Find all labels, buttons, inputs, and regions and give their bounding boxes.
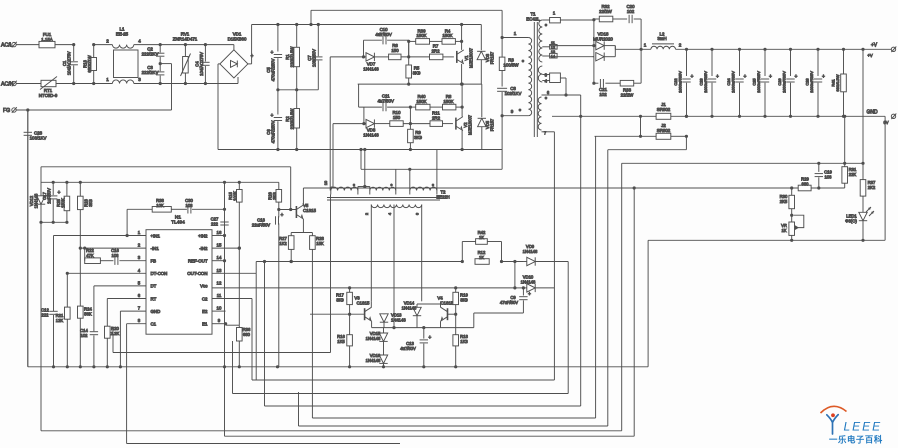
wire V3 base — [310, 313, 365, 315]
svg-text:22/2W: 22/2W — [621, 92, 635, 97]
terminal GND — [843, 115, 846, 118]
diode VD7 — [330, 56, 366, 58]
wire J1-J2 link — [640, 116, 642, 136]
svg-text:1000uF/35V: 1000uF/35V — [782, 71, 787, 93]
svg-text:11: 11 — [217, 293, 222, 298]
svg-text:C1815: C1815 — [303, 208, 316, 213]
svg-text:+: + — [769, 74, 772, 80]
wire gnd-sense line — [41, 166, 291, 168]
svg-text:103/1KV: 103/1KV — [30, 135, 47, 140]
svg-text:104/AC275V: 104/AC275V — [199, 52, 204, 76]
capacitor C28 input Y-cap — [27, 110, 29, 132]
svg-text:+IN1: +IN1 — [151, 233, 161, 238]
svg-text:680K/1W: 680K/1W — [87, 55, 92, 72]
svg-text:+: + — [379, 99, 382, 105]
svg-text:103: 103 — [825, 174, 833, 179]
svg-text:SR802: SR802 — [657, 107, 671, 112]
svg-text:4u7/50V: 4u7/50V — [400, 346, 416, 351]
transistor V5 C1815 — [279, 209, 297, 211]
svg-text:150K: 150K — [442, 33, 452, 38]
resistor R22 — [85, 258, 101, 264]
svg-text:0V: 0V — [883, 120, 888, 125]
wire nest L9 — [225, 435, 635, 437]
capacitor C19 — [818, 163, 820, 172]
thermistor RT1 — [41, 80, 56, 86]
svg-text:13: 13 — [551, 50, 555, 54]
wire pin3 FB — [119, 260, 146, 262]
svg-text:104/AC275V: 104/AC275V — [67, 51, 72, 75]
wire pin12 Vcc line — [212, 287, 515, 289]
svg-text:3: 3 — [138, 77, 141, 82]
svg-text:10K: 10K — [156, 203, 164, 208]
svg-text:+: + — [528, 291, 531, 297]
diode J2 SR802 — [595, 135, 657, 137]
potentiometer VR — [791, 215, 793, 222]
resistor R24 — [79, 248, 81, 306]
svg-text:2K5: 2K5 — [780, 199, 788, 204]
svg-text:1000uF/35V: 1000uF/35V — [703, 71, 708, 93]
wire Vcc-aux link — [514, 262, 516, 288]
varistor RV1 — [184, 45, 186, 57]
wire pin1 +IN1 — [54, 235, 147, 237]
svg-text:+: + — [822, 74, 825, 80]
wire bridge minus — [218, 63, 220, 65]
svg-text:AC/N: AC/N — [1, 82, 14, 88]
svg-text:+V: +V — [871, 43, 878, 49]
svg-text:+: + — [795, 74, 798, 80]
resistor R10 — [390, 121, 403, 127]
svg-text:2K2: 2K2 — [868, 185, 876, 190]
svg-text:C1815: C1815 — [441, 301, 454, 306]
svg-text:+: + — [281, 212, 284, 218]
capacitor C16 — [100, 260, 113, 262]
svg-text:1N4148: 1N4148 — [391, 318, 406, 323]
wire nest L1 — [113, 352, 331, 354]
svg-text:MUR2020: MUR2020 — [593, 36, 613, 41]
wire nest L4 — [233, 393, 569, 395]
wire pin13 line — [256, 261, 462, 263]
svg-text:DT-CON: DT-CON — [151, 271, 168, 276]
resistor R31 — [844, 116, 846, 166]
resistor R40 — [410, 106, 415, 108]
wire gnd-sense drop — [290, 167, 292, 210]
resistor R36 — [226, 324, 240, 326]
diode VD9 — [522, 261, 527, 263]
wire pin7 GND — [120, 310, 146, 312]
resistor R30 — [791, 188, 793, 195]
wire sec-gnd drop — [647, 240, 649, 366]
wire bridge AC bottom — [237, 77, 239, 84]
resistor R6 — [389, 54, 401, 60]
wire pin10 E2 — [212, 310, 226, 312]
capacitor C4 — [204, 45, 206, 62]
svg-text:12: 12 — [217, 280, 222, 285]
svg-text:1.15A: 1.15A — [41, 37, 53, 42]
svg-text:3K6: 3K6 — [88, 199, 93, 207]
svg-text:15: 15 — [217, 243, 222, 248]
svg-text:LEEE: LEEE — [844, 420, 883, 434]
svg-text:MJE13007: MJE13007 — [468, 114, 473, 135]
transistor V4 C1815 — [447, 308, 449, 320]
svg-text:EE22H: EE22H — [436, 194, 449, 199]
wire V1 emitter — [461, 64, 463, 84]
capacitor C13 — [423, 328, 425, 339]
wire N input — [17, 83, 42, 85]
resistor R20 — [105, 326, 111, 338]
svg-text:220K/0.5W: 220K/0.5W — [290, 47, 295, 68]
wire L1 to bridge top — [134, 44, 234, 46]
capacitor C12 — [49, 310, 57, 312]
svg-text:1N4148: 1N4148 — [366, 336, 381, 341]
svg-text:14: 14 — [217, 255, 222, 260]
T2 bottom winding — [371, 205, 421, 208]
wire pin11 C2 — [212, 298, 252, 300]
wire V4 emitter — [440, 321, 442, 327]
resistor R37 — [862, 49, 864, 179]
svg-text:100K: 100K — [233, 191, 238, 201]
terminal AC/L — [12, 42, 16, 46]
svg-text:1K2: 1K2 — [279, 241, 287, 246]
svg-text:+V: +V — [867, 53, 872, 58]
wire pin2 -IN1 — [80, 247, 146, 249]
op-amp U1 TL494 IC body — [146, 230, 212, 335]
wire nest L6 — [312, 417, 595, 419]
svg-text:3K9: 3K9 — [414, 135, 422, 140]
svg-text:+: + — [270, 113, 273, 119]
svg-text:47K: 47K — [86, 253, 94, 258]
svg-text:1N4148: 1N4148 — [363, 66, 379, 71]
wire emitter line — [372, 327, 474, 329]
capacitor C28 — [816, 48, 819, 51]
svg-text:222: 222 — [42, 312, 50, 317]
diode J1 SR802 — [579, 115, 582, 118]
svg-text:Vcc: Vcc — [200, 284, 208, 289]
wire T2 C left up — [409, 169, 411, 190]
svg-text:MJE13007: MJE13007 — [469, 47, 474, 68]
wire T1 pin9 — [502, 115, 528, 117]
svg-text:EC42L: EC42L — [526, 16, 540, 21]
secondary lower winding pins 3 4 — [538, 66, 542, 82]
svg-text:NTC5D-9: NTC5D-9 — [39, 93, 58, 98]
svg-text:3K9: 3K9 — [413, 70, 421, 75]
resistor R15 — [238, 182, 240, 189]
wire T1 top pin to R32 — [542, 19, 549, 21]
svg-text:9: 9 — [511, 109, 514, 114]
wire T2 center tap — [364, 150, 366, 187]
svg-text:1K: 1K — [479, 235, 484, 240]
capacitor C14 — [90, 331, 98, 333]
wire pin16 — [212, 235, 225, 237]
wire VD7 return — [329, 57, 331, 191]
resistor R1 — [296, 25, 298, 48]
svg-text:2: 2 — [679, 43, 682, 48]
resistor R42 — [461, 242, 463, 262]
svg-text:D15XB60: D15XB60 — [228, 37, 247, 42]
svg-text:22/2W: 22/2W — [599, 9, 613, 14]
svg-text:680/0.5W: 680/0.5W — [835, 74, 840, 91]
svg-text:103: 103 — [186, 203, 194, 208]
diode VD13 — [380, 314, 388, 322]
svg-text:22uF/50V: 22uF/50V — [252, 222, 270, 227]
wire nest L5 — [265, 405, 581, 407]
svg-text:1K5: 1K5 — [337, 339, 345, 344]
resistor R28 — [311, 233, 313, 236]
capacitor C24 — [738, 48, 741, 51]
svg-text:100/5W: 100/5W — [503, 62, 519, 67]
wire C9 return — [474, 312, 524, 314]
svg-text:1: 1 — [514, 31, 517, 36]
capacitor C1 — [73, 45, 75, 61]
svg-text:+IN2: +IN2 — [198, 233, 208, 238]
svg-text:SR802: SR802 — [657, 128, 671, 133]
svg-text:*: * — [391, 184, 393, 190]
svg-text:C1815: C1815 — [357, 301, 370, 306]
svg-text:ZNR14D471: ZNR14D471 — [173, 37, 198, 42]
wire vcc-aux rail — [41, 181, 279, 183]
wire VD8 return — [332, 124, 334, 187]
wire V5 emitter — [302, 219, 304, 233]
svg-text:2.2K: 2.2K — [111, 331, 120, 336]
diode VD10 — [515, 287, 527, 289]
svg-text:222/2KV: 222/2KV — [142, 70, 159, 75]
svg-text:2R2: 2R2 — [431, 48, 440, 53]
wire pin15 — [212, 247, 239, 249]
svg-text:+: + — [428, 335, 431, 341]
wire pin9 return — [501, 116, 503, 170]
svg-text:470uF/250V: 470uF/250V — [271, 58, 276, 81]
diode VD14 — [413, 307, 421, 315]
resistor R18 — [455, 314, 457, 335]
svg-text:1: 1 — [106, 77, 109, 82]
capacitor C3 — [159, 65, 161, 71]
svg-text:10: 10 — [217, 306, 222, 311]
resistor R17 — [349, 288, 351, 292]
svg-text:47uF/50V: 47uF/50V — [500, 300, 518, 305]
fuse FU1 — [39, 41, 55, 47]
svg-text:E2: E2 — [202, 309, 208, 314]
svg-text:222/2KV: 222/2KV — [142, 51, 159, 56]
wire nest L7 — [299, 425, 608, 427]
svg-text:FB: FB — [151, 259, 157, 264]
wire nest L3 — [252, 379, 554, 381]
svg-text:680: 680 — [802, 181, 810, 186]
wire nest L10 — [127, 443, 400, 445]
svg-text:102: 102 — [81, 333, 89, 338]
capacitor C7 — [317, 25, 319, 57]
svg-text:1K3: 1K3 — [460, 339, 468, 344]
svg-text:*: * — [432, 184, 434, 190]
capacitor C6 — [277, 90, 279, 115]
svg-text:12K: 12K — [56, 318, 64, 323]
capacitor C26 — [789, 48, 792, 51]
wire FB long line — [303, 187, 844, 189]
wire T1 pin1 — [501, 10, 503, 37]
svg-text:GND: GND — [866, 110, 878, 116]
resistor R11 — [430, 121, 443, 127]
svg-text:2R2: 2R2 — [432, 115, 441, 120]
wire VD18 to L2 — [550, 45, 594, 47]
svg-text:-IN1: -IN1 — [151, 246, 160, 251]
terminal +V — [861, 48, 864, 51]
svg-text:103: 103 — [112, 253, 120, 258]
svg-text:+: + — [716, 74, 719, 80]
svg-text:150K: 150K — [61, 198, 66, 208]
wire V4 base — [448, 313, 456, 315]
svg-text:680: 680 — [243, 332, 251, 337]
svg-text:12: 12 — [551, 46, 555, 50]
svg-text:13: 13 — [217, 268, 222, 273]
svg-text:15K: 15K — [316, 241, 324, 246]
svg-text:FG: FG — [3, 108, 10, 114]
wire V1 collector — [461, 25, 463, 50]
capacitor C18 — [278, 210, 280, 218]
svg-text:REF-OUT: REF-OUT — [188, 259, 208, 264]
svg-text:1N4148: 1N4148 — [521, 279, 536, 284]
wire midpoint line — [358, 83, 482, 85]
svg-text:1N4148: 1N4148 — [523, 249, 538, 254]
svg-text:+: + — [744, 74, 747, 80]
svg-text:2: 2 — [106, 39, 109, 44]
svg-text:3mH: 3mH — [657, 36, 666, 41]
wire left aux bus — [41, 221, 67, 223]
wire mid rail — [278, 89, 318, 91]
wire J2 right return — [685, 136, 687, 149]
wire nest L8 — [41, 430, 622, 432]
wire +V rail — [676, 48, 892, 50]
resistor R25 — [66, 182, 68, 196]
wire pin4 DT-CON — [67, 272, 146, 274]
capacitor C30 — [171, 208, 187, 210]
wire B+ to T1 pin1 — [310, 10, 312, 24]
capacitor C25 — [763, 48, 766, 51]
resistor R2 — [296, 90, 298, 109]
svg-text:EE-25: EE-25 — [116, 31, 129, 36]
svg-text:56K: 56K — [84, 311, 92, 316]
transistor V3 C1815 — [364, 308, 366, 320]
diode VD8 — [333, 123, 366, 125]
svg-text:4: 4 — [138, 39, 141, 44]
wire V5 collector — [302, 188, 304, 205]
resistor R38 — [127, 208, 152, 210]
wire B+ rail — [252, 24, 482, 26]
svg-text:1000uF/35V: 1000uF/35V — [809, 71, 814, 93]
capacitor C5 — [277, 25, 279, 52]
svg-text:1000uF/35V: 1000uF/35V — [756, 71, 761, 93]
capacitor C22 — [685, 48, 688, 51]
svg-text:22K: 22K — [849, 172, 857, 177]
T2 core — [327, 197, 440, 199]
YLEEE logo — [821, 406, 883, 444]
capacitor C17 — [52, 182, 54, 195]
resistor R19 — [455, 288, 457, 292]
svg-text:1uF/50V: 1uF/50V — [47, 188, 52, 204]
wire Vcc feed dots — [348, 286, 351, 289]
wire gnd long line — [622, 162, 863, 164]
svg-text:GND: GND — [151, 309, 161, 314]
diode VD12 — [37, 196, 45, 204]
wire to L1 — [94, 44, 113, 46]
capacitor C23 — [710, 48, 713, 51]
svg-text:DT: DT — [151, 284, 157, 289]
svg-text:1000uF/35V: 1000uF/35V — [731, 71, 736, 93]
resistor R21 — [66, 273, 68, 307]
svg-text:3K9: 3K9 — [336, 297, 344, 302]
resistor R41 — [842, 48, 845, 51]
LED LED1 — [862, 196, 864, 212]
wire C2-C3 mid to FG — [160, 63, 171, 65]
wire L input — [17, 44, 40, 46]
svg-text:470uF/250V: 470uF/250V — [271, 120, 276, 143]
svg-text:Φ3(O): Φ3(O) — [845, 219, 857, 224]
svg-text:102: 102 — [627, 9, 635, 14]
svg-text:150K: 150K — [443, 99, 453, 104]
svg-text:1N4148: 1N4148 — [34, 193, 39, 208]
capacitor C2 — [159, 45, 161, 53]
diode VD15 — [383, 328, 385, 333]
svg-text:1N4148: 1N4148 — [366, 358, 381, 363]
svg-text:150: 150 — [391, 48, 399, 53]
wire pin14 — [212, 260, 225, 262]
svg-text:1N4148: 1N4148 — [363, 132, 379, 137]
svg-text:3K6: 3K6 — [272, 192, 277, 200]
svg-text:3K9: 3K9 — [460, 297, 468, 302]
svg-text:+: + — [379, 32, 382, 38]
resistor R3 — [501, 38, 503, 58]
svg-text:150K: 150K — [416, 99, 426, 104]
wire main bottom rail — [28, 366, 648, 368]
svg-text:C2: C2 — [202, 296, 208, 301]
wire bridge plus — [248, 63, 252, 65]
svg-text:1: 1 — [644, 43, 647, 48]
svg-text:103/250V: 103/250V — [312, 49, 317, 67]
svg-text:FR157: FR157 — [490, 51, 495, 64]
terminal FG — [12, 108, 16, 112]
wire pin5 DT — [94, 285, 146, 287]
diode VD3 FR157 — [480, 25, 482, 51]
wire V2 collector — [461, 84, 463, 117]
svg-text:C1: C1 — [151, 322, 157, 327]
svg-text:1K: 1K — [781, 228, 786, 233]
wire T2 mid to push-pull — [393, 209, 395, 328]
svg-text:222: 222 — [211, 221, 219, 226]
wire pin9 E1 — [212, 323, 226, 325]
wire V2 emitter — [461, 131, 463, 150]
wire pin6 RT — [107, 298, 146, 300]
wire to VD9 — [502, 261, 524, 263]
svg-text:150: 150 — [393, 115, 401, 120]
wire T2 C right up — [436, 150, 438, 191]
svg-text:+: + — [270, 50, 273, 56]
resistor R27 — [290, 233, 292, 236]
resistor R39 — [409, 40, 416, 42]
svg-text:1K: 1K — [479, 255, 484, 260]
terminal AC/N — [12, 81, 16, 85]
wire B- rail — [218, 149, 502, 151]
wire T2 A-B link — [357, 187, 359, 191]
resistor R8 — [430, 106, 443, 108]
wire GND rail — [552, 115, 885, 117]
svg-text:一乐电子百科: 一乐电子百科 — [829, 435, 883, 445]
diode VD18 lower half — [593, 56, 594, 58]
resistor R29 — [798, 185, 811, 191]
resistor R12 — [461, 260, 464, 263]
wire FG — [17, 109, 172, 111]
svg-text:1000uF/35V: 1000uF/35V — [678, 71, 683, 93]
resistor R16 — [349, 314, 351, 335]
svg-text:-IN2: -IN2 — [199, 246, 208, 251]
svg-text:150K: 150K — [416, 33, 426, 38]
svg-text:AC/L: AC/L — [1, 43, 13, 49]
